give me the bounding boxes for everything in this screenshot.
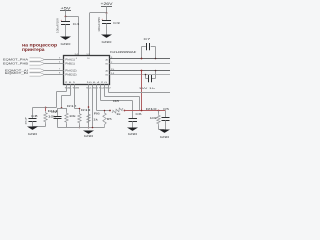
svg-text:R13: R13: [81, 108, 91, 112]
svg-text:R12: R12: [67, 104, 77, 108]
svg-text:K2H49999AF: K2H49999AF: [110, 50, 136, 54]
svg-text:R10: R10: [146, 107, 157, 111]
svg-text:+: +: [60, 18, 62, 22]
svg-text:принтера: принтера: [22, 47, 45, 52]
svg-text:C7: C7: [144, 37, 151, 41]
svg-text:C3: C3: [113, 21, 120, 25]
svg-text:C2: C2: [51, 110, 58, 114]
svg-text:PhB(1): PhB(1): [65, 64, 75, 66]
svg-text:EQMOT_BI: EQMOT_BI: [5, 72, 29, 75]
svg-text:+: +: [101, 17, 103, 21]
svg-text:C8: C8: [31, 114, 38, 118]
svg-text:R6: R6: [94, 112, 101, 116]
svg-text:EQMOT_AI: EQMOT_AI: [5, 69, 29, 72]
svg-text:C6: C6: [135, 112, 142, 116]
svg-text:C4: C4: [73, 22, 80, 26]
svg-text:на процессор: на процессор: [22, 42, 58, 47]
svg-text:100uF/10V: 100uF/10V: [58, 17, 60, 33]
svg-text:2 6 1: 2 6 1: [65, 82, 77, 84]
svg-text:+5V: +5V: [61, 6, 72, 10]
svg-text:Sa1 Sb1 Sa2 Sb2: Sa1 Sb1 Sa2 Sb2: [86, 87, 112, 89]
svg-text:100uF/25V: 100uF/25V: [99, 16, 101, 32]
svg-text:EQMOT_PHB: EQMOT_PHB: [3, 63, 29, 66]
svg-text:PhB2(2): PhB2(2): [65, 75, 76, 77]
svg-text:1W 1k: 1W 1k: [139, 88, 158, 90]
svg-text:10uF: 10uF: [26, 116, 28, 125]
svg-text:10 6 4 2 0: 10 6 4 2 0: [87, 82, 109, 84]
svg-text:+26V: +26V: [101, 2, 114, 6]
svg-text:C5: C5: [163, 107, 169, 111]
svg-text:EQMOT_PHA: EQMOT_PHA: [3, 59, 29, 62]
